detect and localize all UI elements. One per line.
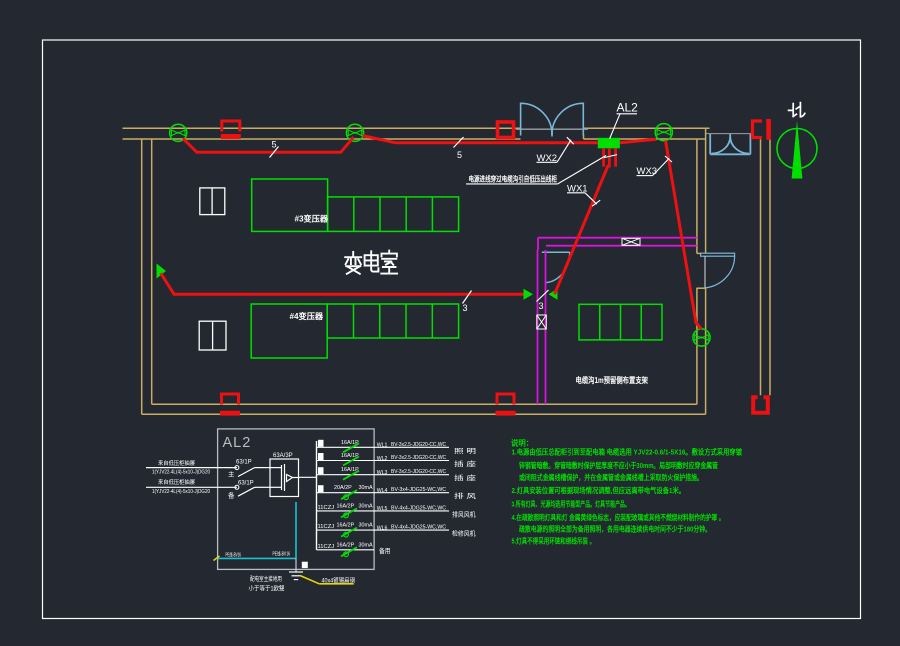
wall bottom (double line) <box>142 404 706 414</box>
svg-text:来自低压柜抽屡: 来自低压柜抽屡 <box>158 459 195 467</box>
svg-text:4.在疏散照明灯具和灯 金属黄绿色标志，应装配玻璃或其他不燃: 4.在疏散照明灯具和灯 金属黄绿色标志，应装配玻璃或其他不燃烧材料制作的护罩 。 <box>512 513 725 522</box>
svg-text:11CZJ: 11CZJ <box>318 524 335 530</box>
door D1 double swing door in top wall <box>521 103 584 137</box>
ceiling light L4 <box>693 329 710 346</box>
branch circuit 2 <box>317 453 477 468</box>
yellow earthing conductor with label <box>300 576 355 585</box>
slash mark 3 wires on W1-W2 run <box>463 291 472 314</box>
ceiling light L1 <box>170 124 187 141</box>
room label: substation room <box>345 251 397 274</box>
svg-text:插 座: 插 座 <box>454 473 477 482</box>
wall lamp W2 left of riser duct <box>524 289 534 300</box>
svg-text:20A/2P: 20A/2P <box>334 485 352 491</box>
svg-text:锌钢管暗敷。穿管暗敷时保护层厚度不应小于30mm。局部明敷时: 锌钢管暗敷。穿管暗敷时保护层厚度不应小于30mm。局部明敷时应穿金属管 <box>519 461 718 470</box>
door D4 single door at corridor near cable shaft <box>542 252 570 282</box>
svg-text:BV-4x4-JDG25-WC,WC: BV-4x4-JDG25-WC,WC <box>391 505 446 511</box>
incoming feeder 1 wire <box>146 467 237 469</box>
wall right outer (double line) <box>761 139 771 395</box>
svg-text:说明：: 说明： <box>511 439 533 448</box>
svg-text:30mA: 30mA <box>359 542 373 548</box>
svg-text:小于等于1欧雙: 小于等于1欧雙 <box>249 585 285 593</box>
svg-text:1(YJV22-4L(4)-5x10-J)DG20: 1(YJV22-4L(4)-5x10-J)DG20 <box>152 489 210 495</box>
branch circuit 4 <box>317 485 477 500</box>
wire lamp W1 to lamp W2 (3 wires) <box>161 273 524 294</box>
svg-text:16A/2P: 16A/2P <box>337 523 355 529</box>
svg-text:40x4镀锡扁钢: 40x4镀锡扁钢 <box>322 577 356 585</box>
wall lamp W3 right of riser duct <box>549 289 558 300</box>
exhaust fan F5 on right outer wall top <box>753 119 771 140</box>
wall lamp W1 on left wall <box>157 264 167 279</box>
svg-text:BV-3x2.5-JDG20-CC,WC: BV-3x2.5-JDG20-CC,WC <box>391 442 446 448</box>
exhaust fan F2 on top wall (square) <box>498 122 514 138</box>
damper symbol X-box on riser duct <box>537 315 547 329</box>
incoming feeder 2 labels <box>152 478 210 495</box>
ceiling light L3 <box>655 124 672 141</box>
svg-text:主: 主 <box>228 469 235 478</box>
branch circuit 6 <box>317 523 477 538</box>
svg-text:排 风: 排 风 <box>454 491 477 500</box>
wall top (double line, with door opening) <box>123 128 710 139</box>
svg-text:16A/2P: 16A/2P <box>337 503 355 509</box>
door sill line at top double-door opening <box>516 128 588 130</box>
ceiling light L2 <box>346 124 363 141</box>
PE line (cyan) <box>217 502 296 558</box>
svg-text:WL6: WL6 <box>377 525 388 531</box>
slash mark with count 3 on riser duct <box>537 290 549 311</box>
door D2 double swing door at top right corridor <box>710 134 750 155</box>
exhaust fan F1 on top wall <box>221 121 241 139</box>
incoming feeder 2 wire <box>146 486 237 488</box>
wire panel AL2 to light L3 <box>620 139 656 143</box>
panel AL2 outgoing red stubs <box>604 148 616 167</box>
svg-text:或闭阻式金属线槽保护，并在金属管或金属线槽上采取防火保护措施: 或闭阻式金属线槽保护，并在金属管或金属线槽上采取防火保护措施。 <box>519 473 703 482</box>
svg-text:WL5: WL5 <box>377 506 388 512</box>
svg-text:30mA: 30mA <box>359 523 373 529</box>
note: power feed through cable trench from LV cabinet <box>466 155 617 184</box>
svg-text:30mA: 30mA <box>359 485 373 491</box>
svg-text:BV-3x4-JDG25-WC,WC: BV-3x4-JDG25-WC,WC <box>391 487 446 493</box>
isolator switch Q2 <box>228 481 270 500</box>
incoming feeder 1 labels <box>152 459 210 476</box>
wire WX3 light L3 to light L4 <box>666 141 702 330</box>
svg-text:63A/3P: 63A/3P <box>273 453 293 459</box>
svg-text:BV-3x2.5-JDG20-CC,WC: BV-3x2.5-JDG20-CC,WC <box>391 469 446 475</box>
svg-text:#4变压器: #4变压器 <box>290 311 325 321</box>
svg-text:电缆沟1m预留侧布置支架: 电缆沟1m预留侧布置支架 <box>576 375 649 385</box>
svg-text:照 明: 照 明 <box>454 447 476 455</box>
svg-text:1.电源由低压总配柜引到至配电箱 电缆选用 YJV22-0.: 1.电源由低压总配柜引到至配电箱 电缆选用 YJV22-0.6/1-5X16。敷… <box>512 448 743 457</box>
svg-text:PE线-BV16: PE线-BV16 <box>273 550 291 558</box>
column pillar upper <box>200 188 225 215</box>
exhaust fan F4 on bottom wall <box>496 394 516 416</box>
svg-text:5: 5 <box>457 150 462 160</box>
ATS transfer switch box <box>270 459 299 497</box>
label WX3 with leader <box>637 156 673 177</box>
svg-text:11CZJ: 11CZJ <box>318 544 335 550</box>
svg-text:1(YJV22-4L(4)-5x10-J)DG20: 1(YJV22-4L(4)-5x10-J)DG20 <box>152 469 210 475</box>
svg-text:检修风机: 检修风机 <box>452 529 476 538</box>
earth conductor down <box>295 558 297 571</box>
door D3 single door in right inner wall <box>701 253 735 288</box>
white square terminal <box>302 562 308 568</box>
label WX2 with leader <box>537 137 574 164</box>
label AL2 with leader <box>610 101 638 139</box>
svg-text:63/1P: 63/1P <box>238 481 254 487</box>
exhaust fan F3 on bottom wall <box>220 394 240 416</box>
svg-text:WL4: WL4 <box>377 488 388 494</box>
transformer #3 outline <box>252 179 328 231</box>
svg-text:5: 5 <box>272 140 277 150</box>
busbar vertical <box>316 441 318 550</box>
svg-text:PE线-BV16: PE线-BV16 <box>226 550 242 558</box>
ground symbol <box>289 572 303 580</box>
svg-text:BV-4x4-JDG25-WC,WC: BV-4x4-JDG25-WC,WC <box>391 525 446 531</box>
svg-text:备: 备 <box>228 491 235 500</box>
svg-text:备用: 备用 <box>379 546 391 555</box>
svg-text:WL1: WL1 <box>377 443 388 449</box>
svg-text:16A/2P: 16A/2P <box>337 542 355 548</box>
distribution panel AL2 (green box) <box>598 138 620 149</box>
branch circuit 1 <box>317 440 477 455</box>
svg-text:AL2: AL2 <box>617 101 639 115</box>
yellow tick at PE line end <box>214 556 220 561</box>
wire WX1 panel to lamp W3 <box>555 165 609 294</box>
column pillar lower <box>199 321 226 350</box>
cable riser duct vertical (magenta) <box>538 250 546 404</box>
schematic panel AL2 enclosure box <box>218 429 375 570</box>
label WX1 with leader <box>567 184 600 207</box>
wall left (double line) <box>142 139 152 414</box>
svg-text:AL2: AL2 <box>223 435 252 451</box>
svg-text:2.灯具安装位置可根据现场情况调整,但应远离带电气设备1米。: 2.灯具安装位置可根据现场情况调整,但应远离带电气设备1米。 <box>512 486 686 495</box>
branch circuit 5 <box>317 503 477 518</box>
svg-text:63/1P: 63/1P <box>236 459 252 465</box>
wire circuit lights L1-L2 (5 wires) <box>183 137 354 152</box>
svg-text:3: 3 <box>539 301 544 311</box>
svg-text:来自低压柜抽屡: 来自低压柜抽屡 <box>158 478 195 486</box>
north arrow <box>777 121 817 179</box>
svg-text:11CZJ: 11CZJ <box>318 505 335 511</box>
transformer #3 cell row <box>328 197 459 232</box>
north label <box>789 103 805 117</box>
equipment cabinet row right <box>579 304 662 340</box>
wire ATS to busbar <box>299 476 317 478</box>
wall right inner (double line with door opening) <box>697 128 706 414</box>
transformer #4 outline <box>251 304 327 358</box>
svg-text:3.所有灯具、光源均选用节能型产品。灯具节能产品。: 3.所有灯具、光源均选用节能型产品。灯具节能产品。 <box>512 499 631 508</box>
svg-text:BV-3x2.5-JDG20-CC,WC: BV-3x2.5-JDG20-CC,WC <box>391 455 446 461</box>
svg-text:插 座: 插 座 <box>454 459 477 468</box>
svg-text:电源进线穿过电缆沟引自低压出线柜: 电源进线穿过电缆沟引自低压出线柜 <box>469 175 558 184</box>
svg-text:WL3: WL3 <box>377 470 388 476</box>
svg-text:排风风机: 排风风机 <box>452 509 476 518</box>
damper symbol in horizontal tray <box>622 238 640 245</box>
text: main earthing grid of substation <box>249 575 285 593</box>
svg-text:疏散电源的照明全部为备用照明，各用电器连续供电时间不少于18: 疏散电源的照明全部为备用照明，各用电器连续供电时间不少于180分钟。 <box>519 525 711 534</box>
svg-text:5.灯具不得采用环链和绑线吊装 。: 5.灯具不得采用环链和绑线吊装 。 <box>512 536 596 545</box>
branch circuit 3 <box>317 467 477 482</box>
svg-text:WL2: WL2 <box>377 456 388 462</box>
svg-text:#3变压器: #3变压器 <box>295 214 330 224</box>
cable tray horizontal (magenta) <box>538 238 697 250</box>
slash mark 5 wires on panel-L2 run <box>454 137 464 160</box>
svg-text:3: 3 <box>463 303 468 313</box>
transformer #4 cell row <box>327 304 458 338</box>
svg-text:配电室主接地用: 配电室主接地用 <box>250 575 282 583</box>
isolator switch Q1 <box>228 459 270 478</box>
branch circuit 7 <box>317 542 391 556</box>
louver box at bottom of right outer wall <box>753 397 768 413</box>
slash mark 5 wires on L1-L2 run <box>270 140 279 158</box>
svg-text:30mA: 30mA <box>359 503 373 509</box>
wire panel AL2 to light L2 <box>363 136 598 143</box>
